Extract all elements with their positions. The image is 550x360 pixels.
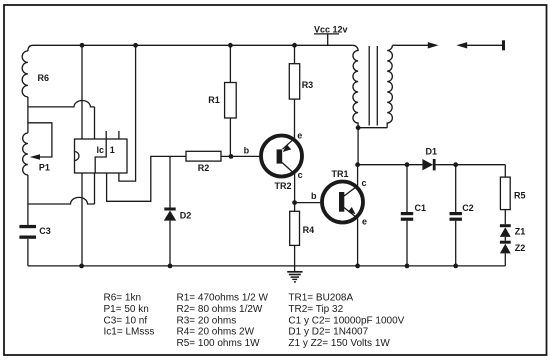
capacitor C2 [455, 165, 457, 212]
svg-text:e: e [297, 130, 302, 140]
node C1 top [405, 162, 410, 167]
svg-text:D2: D2 [180, 210, 192, 220]
transformer bottom link [358, 127, 387, 129]
IC Ic1 internal divider [95, 139, 106, 173]
wire y204 with hop over x82 [28, 197, 95, 204]
capacitor C1 [406, 165, 408, 212]
node top rail x230 [228, 43, 233, 48]
svg-text:b: b [311, 191, 317, 201]
svg-text:C3: C3 [39, 226, 51, 236]
svg-text:e: e [362, 216, 367, 226]
wire transformer to node y165 [357, 128, 359, 165]
node bottom rail TR1 e [355, 264, 360, 269]
svg-text:Vcc 12v: Vcc 12v [314, 24, 348, 34]
TR1 emitter arrow (NPN outward) [348, 207, 356, 214]
transformer primary winding [353, 45, 358, 127]
TR1 collector wire up [357, 165, 359, 186]
wire C3 to bottom rail [27, 239, 29, 266]
svg-text:R6= 1kn: R6= 1kn [104, 293, 142, 304]
wire R2 to node b [221, 155, 260, 157]
TR2 collector wire down to node b TR1 [294, 174, 296, 203]
wire node b to TR1 [295, 202, 321, 204]
resistor R2 [186, 151, 221, 161]
svg-text:Z1 y Z2= 150 Volts 1W: Z1 y Z2= 150 Volts 1W [288, 338, 390, 349]
node b TR2 [229, 154, 234, 159]
svg-text:Z2: Z2 [515, 243, 526, 253]
terminal bar [502, 40, 505, 50]
svg-text:P1= 50 kn: P1= 50 kn [104, 304, 149, 315]
potentiometer P1 [23, 133, 28, 175]
wire x94.5 down to IC [94, 107, 96, 139]
bottom rail [28, 265, 505, 267]
resistor R1 [229, 45, 231, 82]
wire left rail R6 to P1 [27, 97, 29, 133]
wire x94.5 below IC [94, 173, 96, 204]
svg-text:R4= 20 ohms 2W: R4= 20 ohms 2W [177, 327, 255, 338]
transformer core [368, 46, 370, 126]
svg-text:R2: R2 [198, 163, 210, 173]
IC Ic1 top pin 2 [118, 131, 120, 139]
svg-text:R3: R3 [302, 80, 314, 90]
svg-text:C1 y C2= 10000pF 1000V: C1 y C2= 10000pF 1000V [288, 315, 404, 326]
resistor R5 [504, 165, 506, 177]
P1 wiper arrow [30, 154, 40, 160]
node C1 bottom [405, 264, 410, 269]
node x357.6 y165 [355, 162, 360, 167]
node C2 top [453, 162, 458, 167]
transformer secondary winding [387, 45, 392, 127]
top rail [33, 44, 353, 46]
TR1 emitter wire to bottom rail [357, 218, 359, 266]
svg-text:D1 y D2= 1N4007: D1 y D2= 1N4007 [288, 327, 368, 338]
node C2 bottom [453, 264, 458, 269]
svg-text:b: b [244, 146, 250, 156]
svg-text:Z1: Z1 [515, 226, 526, 236]
svg-text:TR2= Tip 32: TR2= Tip 32 [288, 304, 343, 315]
output wire right arrow [392, 44, 428, 46]
svg-text:Ic: Ic [97, 145, 105, 155]
wire outer U from IC to R2 wire [107, 156, 186, 201]
TR1 collector line [344, 186, 358, 196]
TR1 emitter line [344, 208, 358, 219]
wire y107 with hop over x82 [28, 100, 95, 106]
output left arrow with terminal [456, 42, 467, 48]
diode D1 [422, 159, 433, 170]
transistor TR2 circle [261, 136, 302, 177]
svg-text:TR1= BU208A: TR1= BU208A [288, 293, 353, 304]
zener Z1 [500, 224, 511, 227]
node top rail x294 [292, 43, 297, 48]
zener Z2 [500, 241, 511, 244]
svg-text:TR1: TR1 [332, 169, 349, 179]
svg-text:R6: R6 [38, 73, 50, 83]
svg-text:R1: R1 [208, 95, 220, 105]
wire D1 to R5 [436, 164, 506, 166]
node b TR1 [292, 200, 297, 205]
ground [294, 266, 296, 272]
svg-text:Ic1= LMsss: Ic1= LMsss [104, 327, 155, 338]
left rail upper segment [28, 45, 33, 51]
svg-text:R5: R5 [514, 191, 526, 201]
svg-text:R5= 100 ohms 1W: R5= 100 ohms 1W [177, 338, 261, 349]
resistor R4 [294, 203, 296, 212]
capacitor C3 [19, 225, 36, 228]
svg-text:C3= 10 nf: C3= 10 nf [104, 315, 148, 326]
svg-text:R1= 470ohms 1/2 W: R1= 470ohms 1/2 W [177, 293, 269, 304]
svg-text:P1: P1 [39, 163, 50, 173]
svg-text:C2: C2 [462, 203, 474, 213]
IC Ic1 body [75, 139, 128, 173]
svg-text:R3= 20 ohms: R3= 20 ohms [177, 315, 237, 326]
svg-text:c: c [362, 178, 367, 188]
TR2 emitter arrow (PNP into base) [283, 144, 291, 152]
TR2 base bar [277, 149, 283, 163]
svg-text:TR2: TR2 [275, 181, 292, 191]
diode D2 [164, 208, 175, 211]
resistor R3 [294, 45, 296, 63]
node transformer bottom [356, 125, 361, 130]
inductor R6 [22, 51, 28, 97]
diode D2 wire top [169, 156, 171, 207]
TR2 collector line [282, 163, 295, 174]
node top rail x135.6 [133, 43, 138, 48]
node top rail x82 [80, 43, 85, 48]
node bottom rail x82 [79, 264, 84, 269]
TR1 base bar [339, 192, 344, 212]
svg-text:R4: R4 [303, 225, 315, 235]
wire y165 to D1 [358, 164, 423, 166]
wire inner U from IC to top rail [119, 45, 136, 181]
svg-text:c: c [298, 170, 303, 180]
diode D2 wire bottom [169, 221, 171, 266]
wire x82 top rail to bottom rail [81, 45, 83, 266]
node bottom rail x170 [168, 264, 173, 269]
svg-text:D1: D1 [426, 146, 438, 156]
TR2 emitter line [283, 138, 295, 149]
svg-text:R2= 80 ohms 1/2W: R2= 80 ohms 1/2W [177, 304, 263, 315]
transistor TR1 circle [322, 182, 363, 223]
IC Ic1 top pin 1 [105, 131, 107, 139]
IC Ic1 notch [75, 152, 80, 161]
svg-text:1: 1 [110, 145, 115, 155]
P1 wiper wire [28, 123, 52, 157]
svg-text:C1: C1 [415, 203, 427, 213]
wire P1 to C3 [27, 175, 29, 225]
